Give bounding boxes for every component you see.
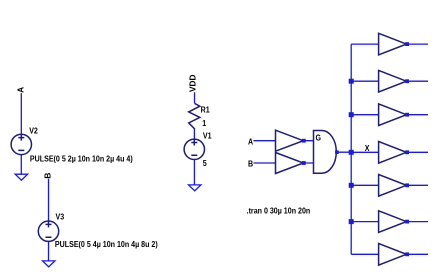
svg-text:G: G xyxy=(316,133,322,143)
svg-text:B: B xyxy=(248,159,254,169)
svg-text:PULSE(0 5 4µ 10n 10n 4µ 8u 2): PULSE(0 5 4µ 10n 10n 4µ 8u 2) xyxy=(55,239,158,249)
svg-text:VDD: VDD xyxy=(187,74,197,92)
svg-text:A: A xyxy=(15,87,25,93)
svg-text:.tran 0 30µ 10n 20n: .tran 0 30µ 10n 20n xyxy=(247,206,311,216)
svg-text:B: B xyxy=(43,173,53,179)
svg-text:5: 5 xyxy=(203,158,208,168)
svg-text:PULSE(0 5 2µ 10n 10n 2µ 4u 4): PULSE(0 5 2µ 10n 10n 2µ 4u 4) xyxy=(30,154,133,164)
svg-text:R1: R1 xyxy=(201,105,211,115)
svg-text:1: 1 xyxy=(202,118,207,128)
svg-text:V2: V2 xyxy=(29,126,38,136)
svg-text:A: A xyxy=(248,137,254,147)
svg-text:X: X xyxy=(365,143,371,153)
svg-text:V3: V3 xyxy=(56,212,65,222)
svg-text:V1: V1 xyxy=(203,131,212,141)
